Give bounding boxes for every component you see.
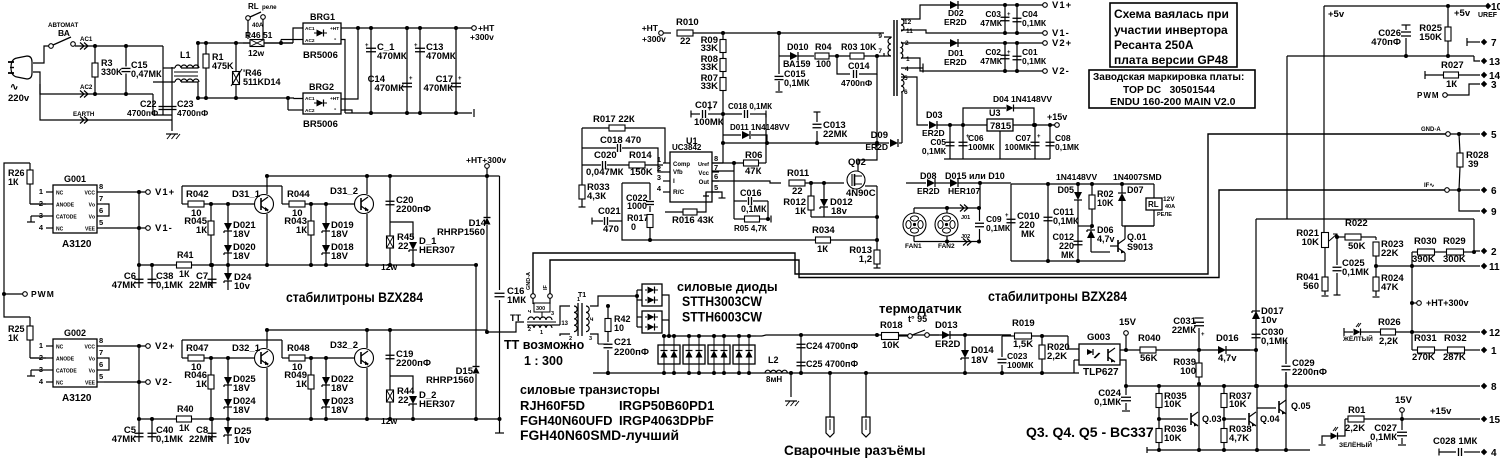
svg-text:V2+: V2+: [155, 341, 175, 352]
svg-text:6: 6: [714, 172, 718, 181]
svg-text:1N4007SMD: 1N4007SMD: [1113, 172, 1162, 182]
svg-text:1К: 1К: [817, 244, 828, 255]
svg-text:ч: ч: [528, 309, 531, 315]
svg-text:11: 11: [1489, 262, 1500, 273]
svg-text:C016: C016: [740, 188, 762, 198]
svg-text:R026: R026: [1378, 317, 1401, 328]
svg-text:IF: IF: [543, 284, 549, 290]
svg-text:150K: 150K: [630, 167, 653, 178]
svg-text:ЖЁЛТЫЙ: ЖЁЛТЫЙ: [1342, 334, 1373, 343]
svg-text:ER2D: ER2D: [917, 186, 940, 196]
svg-text:33K: 33K: [701, 43, 719, 54]
svg-text:100МК: 100МК: [1005, 142, 1032, 152]
svg-text:L1: L1: [180, 50, 191, 60]
svg-text:0,1МК: 0,1МК: [784, 78, 810, 88]
svg-text:HER307: HER307: [419, 399, 455, 410]
svg-text:0: 0: [631, 222, 636, 232]
svg-text:силовые транзисторы: силовые транзисторы: [520, 383, 660, 397]
svg-text:V1+: V1+: [1052, 0, 1072, 11]
svg-text:6: 6: [1491, 186, 1497, 197]
svg-text:0,1МК: 0,1МК: [1053, 216, 1079, 226]
svg-text:D08: D08: [920, 171, 937, 181]
svg-text:PWM: PWM: [1417, 91, 1440, 100]
svg-text:Ј01: Ј01: [961, 215, 970, 221]
svg-text:0,1МК: 0,1МК: [986, 223, 1011, 233]
svg-text:39: 39: [1468, 159, 1479, 170]
svg-text:участии инвертора: участии инвертора: [1114, 23, 1228, 37]
svg-text:22: 22: [680, 36, 691, 47]
svg-text:1 : 300: 1 : 300: [524, 354, 563, 368]
svg-text:IRGP4063DPbF: IRGP4063DPbF: [619, 413, 714, 428]
svg-text:12w: 12w: [381, 262, 397, 272]
svg-text:R018: R018: [880, 320, 903, 331]
svg-text:0,1МК: 0,1МК: [741, 204, 767, 214]
svg-text:4,7v: 4,7v: [1218, 353, 1237, 364]
svg-text:22МК: 22МК: [823, 129, 847, 140]
svg-text:470МК: 470МК: [377, 51, 407, 62]
svg-text:ч: ч: [590, 317, 594, 323]
svg-text:C020: C020: [594, 150, 617, 161]
svg-text:STTH6003CW: STTH6003CW: [682, 310, 762, 325]
svg-text:6: 6: [904, 89, 908, 96]
svg-text:22K: 22K: [1381, 248, 1399, 259]
svg-text:470МК: 470МК: [374, 83, 404, 94]
svg-text:R040: R040: [1138, 333, 1161, 344]
svg-text:5: 5: [714, 183, 718, 192]
svg-text:4,7K: 4,7K: [1229, 433, 1249, 444]
svg-text:22МК: 22МК: [189, 434, 213, 445]
svg-text:V1+: V1+: [155, 187, 175, 198]
svg-text:511KD14: 511KD14: [243, 77, 281, 87]
svg-text:6: 6: [99, 360, 103, 369]
svg-text:100: 100: [816, 59, 831, 69]
svg-text:22: 22: [398, 241, 409, 252]
svg-text:100МК: 100МК: [694, 117, 724, 128]
svg-text:1: 1: [540, 330, 543, 336]
svg-text:Vcc: Vcc: [698, 171, 709, 177]
svg-text:0,47МК: 0,47МК: [131, 69, 162, 79]
svg-text:2200пФ: 2200пФ: [396, 358, 431, 369]
svg-text:7: 7: [99, 348, 103, 357]
svg-text:NC: NC: [56, 227, 64, 233]
svg-text:S9013: S9013: [1127, 242, 1153, 252]
svg-text:300K: 300K: [1443, 254, 1466, 265]
svg-text:AC2: AC2: [305, 38, 315, 44]
svg-text:8: 8: [1491, 382, 1497, 393]
svg-text:4,7v: 4,7v: [1097, 234, 1115, 244]
svg-text:9: 9: [1491, 207, 1497, 218]
svg-text:GND-A: GND-A: [526, 272, 532, 290]
svg-text:ER2D: ER2D: [944, 17, 967, 27]
svg-text:470пФ: 470пФ: [1371, 37, 1401, 48]
svg-text:+: +: [1007, 12, 1011, 18]
svg-text:+: +: [409, 76, 413, 82]
svg-text:VEE: VEE: [85, 381, 96, 387]
svg-text:стабилитроны BZX284: стабилитроны BZX284: [988, 289, 1127, 304]
svg-text:7: 7: [878, 48, 882, 55]
svg-text:AC1: AC1: [80, 36, 93, 43]
svg-text:GND-A: GND-A: [1421, 127, 1441, 133]
svg-text:R022: R022: [1345, 218, 1368, 229]
svg-text:BR5006: BR5006: [303, 119, 338, 130]
svg-text:R40: R40: [177, 404, 194, 414]
svg-text:стабилитроны BZX284: стабилитроны BZX284: [286, 290, 423, 305]
svg-text:D013: D013: [935, 320, 958, 331]
svg-text:1К: 1К: [8, 177, 19, 187]
svg-text:TOP DC 30501544: TOP DC 30501544: [1123, 84, 1215, 96]
svg-text:D016: D016: [1216, 333, 1239, 344]
svg-text:Q02: Q02: [848, 157, 866, 168]
svg-text:22МК: 22МК: [1172, 325, 1196, 336]
svg-text:0,1МК: 0,1МК: [1022, 56, 1047, 66]
svg-text:100МК: 100МК: [1007, 360, 1034, 370]
svg-text:ANODE: ANODE: [56, 357, 75, 363]
svg-text:AC1: AC1: [305, 96, 315, 102]
svg-text:1: 1: [577, 297, 580, 303]
svg-text:D05: D05: [1057, 185, 1074, 195]
svg-text:22: 22: [792, 186, 803, 197]
svg-text:RL: RL: [248, 2, 259, 11]
svg-text:+HT+300v: +HT+300v: [1426, 298, 1469, 308]
svg-text:CATODE: CATODE: [56, 215, 77, 221]
svg-text:D04 1N4148VV: D04 1N4148VV: [993, 94, 1052, 104]
svg-text:270K: 270K: [1412, 352, 1435, 363]
svg-text:реле: реле: [262, 4, 277, 11]
svg-text:C017: C017: [695, 100, 718, 111]
svg-text:C24 4700пФ: C24 4700пФ: [806, 341, 858, 351]
svg-text:10K: 10K: [1164, 433, 1182, 444]
svg-text:PWM: PWM: [31, 289, 55, 299]
svg-text:18V: 18V: [233, 383, 251, 394]
svg-text:10v: 10v: [234, 281, 251, 292]
svg-text:50K: 50K: [1348, 241, 1366, 252]
svg-text:1МК: 1МК: [507, 295, 526, 306]
svg-text:1,5K: 1,5K: [1013, 339, 1033, 350]
svg-text:BRG1: BRG1: [310, 12, 335, 22]
svg-text:Out: Out: [699, 180, 709, 186]
svg-text:47МК: 47МК: [112, 434, 136, 445]
svg-text:R019: R019: [1012, 318, 1035, 329]
svg-text:18V: 18V: [331, 229, 349, 240]
svg-text:C021: C021: [598, 206, 621, 217]
svg-text:G002: G002: [64, 328, 86, 338]
svg-text:ТТ возможно: ТТ возможно: [504, 338, 585, 352]
svg-text:3: 3: [1491, 80, 1497, 91]
svg-text:150K: 150K: [1419, 32, 1442, 43]
svg-text:0,1МК: 0,1МК: [1055, 142, 1080, 152]
svg-text:12w: 12w: [381, 416, 397, 426]
svg-text:+: +: [1037, 134, 1041, 140]
svg-text:AC1: AC1: [305, 26, 315, 32]
svg-text:+: +: [414, 43, 418, 49]
svg-text:1К: 1К: [795, 206, 806, 217]
svg-text:10: 10: [614, 323, 624, 333]
svg-text:100: 100: [1180, 366, 1196, 377]
svg-text:3: 3: [589, 336, 592, 342]
svg-text:2,2К: 2,2К: [1379, 336, 1398, 347]
svg-text:R03 10K: R03 10K: [841, 42, 877, 52]
svg-text:0,1МК: 0,1МК: [1370, 432, 1397, 443]
svg-text:U3: U3: [989, 108, 1001, 118]
svg-text:15V: 15V: [1119, 317, 1137, 328]
svg-text:1К: 1К: [179, 423, 190, 433]
svg-text:10K: 10K: [1302, 237, 1320, 248]
svg-text:33K: 33K: [701, 81, 719, 92]
svg-text:0,047МК: 0,047МК: [586, 167, 624, 178]
svg-text:G003: G003: [1087, 332, 1110, 343]
svg-text:1N4148VV: 1N4148VV: [1056, 172, 1097, 182]
svg-text:10v: 10v: [234, 435, 251, 446]
svg-text:ER2D: ER2D: [944, 57, 967, 67]
svg-text:FGH40N60UFD: FGH40N60UFD: [520, 413, 612, 428]
svg-text:5: 5: [904, 75, 908, 82]
svg-text:VCC: VCC: [84, 345, 95, 351]
svg-text:47МК: 47МК: [980, 18, 1003, 28]
svg-text:D32_2: D32_2: [330, 340, 358, 351]
svg-text:3: 3: [657, 173, 661, 182]
svg-text:плата версии GP48: плата версии GP48: [1114, 53, 1228, 67]
svg-text:+5v: +5v: [1454, 8, 1471, 19]
svg-text:C014: C014: [848, 61, 870, 71]
svg-text:11: 11: [906, 28, 913, 35]
svg-text:R46 51: R46 51: [245, 30, 273, 40]
svg-text:15V: 15V: [1395, 395, 1413, 406]
svg-text:R05 4,7К: R05 4,7К: [734, 224, 767, 233]
svg-text:Заводская маркировка платы:: Заводская маркировка платы:: [1093, 72, 1244, 83]
svg-text:ЗЕЛЁНЫЙ: ЗЕЛЁНЫЙ: [1339, 440, 1372, 449]
svg-text:1000: 1000: [627, 201, 647, 211]
svg-text:2200пФ: 2200пФ: [396, 204, 431, 215]
svg-text:470: 470: [603, 224, 619, 235]
svg-text:Q3. Q4. Q5 - BC337: Q3. Q4. Q5 - BC337: [1026, 424, 1154, 440]
svg-text:18V: 18V: [233, 251, 251, 262]
svg-text:+: +: [1201, 332, 1205, 338]
svg-text:HER307: HER307: [419, 245, 455, 256]
svg-text:56K: 56K: [1140, 353, 1158, 364]
svg-text:4: 4: [905, 66, 909, 73]
svg-text:+15v: +15v: [1047, 112, 1067, 122]
svg-text:12: 12: [904, 19, 912, 26]
svg-text:Uref: Uref: [698, 162, 709, 168]
svg-text:FAN1: FAN1: [905, 243, 922, 250]
svg-text:8: 8: [714, 154, 718, 163]
svg-text:+: +: [1005, 213, 1009, 219]
svg-text:287K: 287K: [1443, 352, 1466, 363]
svg-text:силовые диоды: силовые диоды: [677, 280, 778, 294]
svg-text:100МК: 100МК: [968, 142, 995, 152]
svg-text:Схема ваялась при: Схема ваялась при: [1114, 7, 1229, 21]
svg-text:VCC: VCC: [84, 191, 95, 197]
svg-text:VEE: VEE: [85, 227, 96, 233]
svg-text:40А: 40А: [252, 22, 264, 29]
svg-text:RHRP1560: RHRP1560: [426, 375, 474, 386]
svg-text:D31_1: D31_1: [232, 189, 261, 200]
svg-text:R01: R01: [1348, 405, 1366, 416]
svg-text:+: +: [1007, 50, 1011, 56]
svg-text:Comp: Comp: [673, 162, 690, 168]
svg-text:0,1МК: 0,1МК: [1261, 336, 1288, 347]
svg-text:1: 1: [1491, 346, 1497, 357]
svg-text:1,2: 1,2: [859, 254, 872, 265]
svg-text:UC3842: UC3842: [672, 143, 702, 152]
svg-text:AC2: AC2: [305, 108, 315, 114]
svg-text:+: +: [966, 134, 970, 140]
svg-text:47K: 47K: [1381, 282, 1399, 293]
svg-text:10K: 10K: [1164, 399, 1182, 410]
svg-text:R034: R034: [812, 225, 835, 236]
svg-text:18V: 18V: [331, 405, 349, 416]
svg-text:Q.05: Q.05: [1291, 401, 1311, 411]
svg-text:220v: 220v: [8, 93, 30, 104]
svg-text:4,3К: 4,3К: [587, 191, 606, 202]
svg-text:+: +: [365, 43, 369, 49]
svg-text:2,2K: 2,2K: [1345, 423, 1365, 434]
svg-text:Ј02: Ј02: [961, 234, 970, 240]
svg-text:22МК: 22МК: [189, 280, 213, 291]
svg-text:1К: 1К: [1446, 79, 1457, 90]
svg-text:ER2D: ER2D: [935, 339, 960, 350]
svg-text:R011: R011: [787, 168, 810, 179]
svg-text:0,1МК: 0,1МК: [1094, 397, 1121, 408]
svg-text:Vο: Vο: [89, 369, 95, 375]
svg-text:8: 8: [99, 336, 103, 345]
svg-text:L2: L2: [768, 355, 779, 365]
svg-text:V2+: V2+: [1052, 38, 1072, 49]
svg-text:+5v: +5v: [1328, 9, 1345, 20]
svg-text:UREF: UREF: [1478, 12, 1498, 19]
svg-text:NC: NC: [56, 191, 64, 197]
svg-text:4700пФ: 4700пФ: [127, 108, 158, 118]
svg-text:15: 15: [1489, 415, 1500, 426]
svg-text:Сварочные разъёмы: Сварочные разъёмы: [784, 443, 925, 458]
svg-text:R044: R044: [287, 189, 310, 200]
svg-text:7: 7: [1491, 38, 1497, 49]
svg-text:+300v: +300v: [470, 32, 494, 42]
svg-text:300: 300: [536, 306, 545, 312]
svg-text:FGH40N60SMD-лучший: FGH40N60SMD-лучший: [520, 428, 679, 443]
svg-text:+HT: +HT: [330, 26, 339, 32]
svg-text:R032: R032: [1444, 333, 1467, 344]
svg-text:22: 22: [398, 395, 409, 406]
svg-text:470МК: 470МК: [426, 51, 456, 62]
svg-text:13: 13: [561, 321, 568, 327]
svg-text:10K: 10K: [1229, 399, 1247, 410]
svg-text:ВА: ВА: [58, 28, 70, 38]
svg-text:10v: 10v: [1261, 315, 1278, 326]
svg-text:TLP627: TLP627: [1083, 367, 1119, 378]
svg-text:18v: 18v: [831, 206, 848, 217]
svg-text:+: +: [458, 76, 462, 82]
svg-text:8мН: 8мН: [766, 375, 782, 384]
svg-text:R/C: R/C: [673, 189, 685, 196]
svg-text:7: 7: [99, 194, 103, 203]
svg-text:t° 95: t° 95: [908, 314, 927, 324]
svg-text:R042: R042: [186, 189, 209, 200]
svg-text:V2-: V2-: [155, 377, 173, 388]
svg-text:1К: 1К: [196, 379, 207, 390]
svg-text:1К: 1К: [296, 379, 307, 390]
svg-text:D07: D07: [1127, 185, 1144, 195]
svg-text:10K: 10K: [1097, 198, 1114, 208]
svg-text:1: 1: [906, 56, 910, 63]
svg-text:R04: R04: [815, 42, 832, 52]
svg-text:А3120: А3120: [62, 393, 92, 404]
svg-text:1: 1: [39, 341, 43, 350]
svg-text:1К: 1К: [196, 225, 207, 236]
svg-text:D31_2: D31_2: [330, 186, 358, 197]
svg-text:9: 9: [878, 33, 882, 40]
svg-text:18V: 18V: [331, 251, 349, 262]
svg-text:G001: G001: [64, 174, 86, 184]
svg-text:1К: 1К: [179, 269, 190, 279]
svg-text:R031: R031: [1414, 333, 1437, 344]
svg-text:D09: D09: [871, 130, 888, 141]
svg-text:C028 1МК: C028 1МК: [1433, 436, 1478, 447]
svg-text:Vο: Vο: [89, 215, 95, 221]
svg-text:Ресанта 250А: Ресанта 250А: [1114, 38, 1194, 52]
svg-text:1К: 1К: [296, 225, 307, 236]
svg-text:МК: МК: [1061, 250, 1074, 260]
svg-text:6: 6: [99, 206, 103, 215]
svg-text:470МК: 470МК: [423, 83, 453, 94]
svg-text:А3120: А3120: [62, 239, 92, 250]
svg-text:2200пФ: 2200пФ: [1292, 367, 1327, 378]
svg-text:12: 12: [1489, 328, 1500, 339]
svg-text:0,1МК: 0,1МК: [922, 146, 947, 156]
svg-text:V1-: V1-: [155, 223, 173, 234]
svg-text:ENDU 160-200 MAIN V2.0: ENDU 160-200 MAIN V2.0: [1110, 96, 1236, 108]
svg-text:0,1МК: 0,1МК: [156, 434, 183, 445]
svg-text:12w: 12w: [248, 48, 264, 58]
svg-text:7815: 7815: [990, 121, 1012, 132]
svg-text:330K: 330K: [101, 67, 123, 77]
svg-text:AC2: AC2: [80, 84, 93, 91]
svg-text:40А: 40А: [1165, 204, 1175, 210]
svg-text:2200пФ: 2200пФ: [614, 347, 649, 358]
svg-text:РЕЛЕ: РЕЛЕ: [1157, 212, 1172, 218]
svg-text:Q.04: Q.04: [1260, 414, 1280, 424]
svg-text:47МК: 47МК: [980, 56, 1003, 66]
svg-text:BRG2: BRG2: [309, 82, 334, 92]
svg-text:МК: МК: [1021, 229, 1035, 240]
svg-text:R010: R010: [676, 17, 699, 28]
svg-text:R047: R047: [186, 343, 209, 354]
svg-text:33K: 33K: [701, 62, 719, 73]
svg-text:47К: 47К: [745, 166, 762, 177]
svg-text:5: 5: [99, 218, 103, 227]
svg-text:R41: R41: [177, 250, 194, 260]
svg-text:D010: D010: [787, 42, 809, 52]
svg-text:1: 1: [39, 187, 43, 196]
svg-text:R016 43К: R016 43К: [672, 215, 714, 226]
svg-text:IF∿: IF∿: [1424, 183, 1434, 189]
svg-text:560: 560: [1303, 281, 1319, 292]
svg-text:0,1МК: 0,1МК: [1342, 267, 1369, 278]
svg-text:V2-: V2-: [1052, 66, 1070, 77]
svg-text:NC: NC: [56, 345, 64, 351]
svg-text:D011 1N4148VV: D011 1N4148VV: [730, 123, 790, 132]
svg-text:R030: R030: [1414, 236, 1437, 247]
svg-text:0,1МК: 0,1МК: [156, 280, 183, 291]
svg-text:8: 8: [99, 182, 103, 191]
svg-text:RL: RL: [1148, 200, 1159, 209]
svg-text:D32_1: D32_1: [232, 343, 261, 354]
svg-text:NC: NC: [56, 381, 64, 387]
svg-text:18V: 18V: [331, 383, 349, 394]
svg-text:CATODE: CATODE: [56, 369, 77, 375]
svg-text:12V: 12V: [1163, 196, 1175, 203]
svg-text:1К: 1К: [8, 333, 19, 343]
